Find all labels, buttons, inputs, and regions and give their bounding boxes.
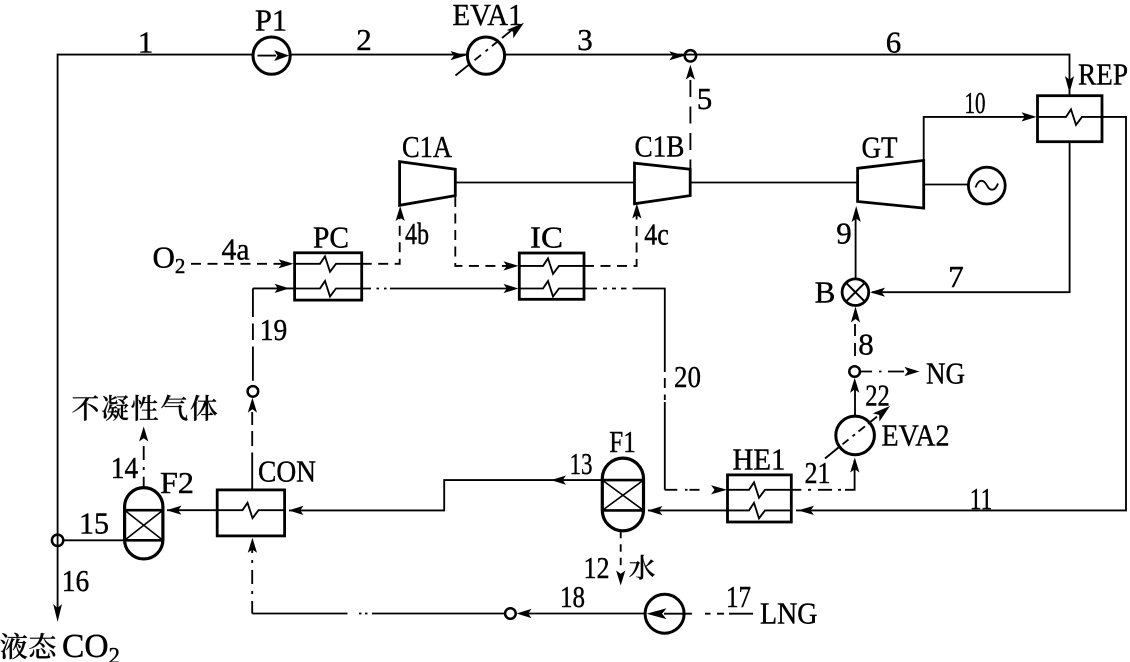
arrow into F1 right bbox=[648, 506, 663, 515]
svg-text:CON: CON bbox=[258, 454, 316, 489]
wire stream 21 corner up bbox=[845, 460, 855, 490]
wire stream 15 (junction to F2) bbox=[63, 539, 125, 541]
arrow into IC bottom bbox=[504, 284, 519, 293]
junction node 18 bbox=[505, 608, 516, 619]
svg-text:IC: IC bbox=[530, 220, 563, 255]
separator F2 vessel bbox=[125, 488, 163, 559]
svg-text:4a: 4a bbox=[222, 232, 250, 267]
wire stream 18 to CON riser (solid with break) bbox=[252, 613, 504, 615]
wire stream 19 (PC coolant line) bbox=[252, 288, 254, 380]
arrow stream 18 bbox=[517, 609, 532, 618]
condenser CON box bbox=[217, 490, 284, 536]
wire stream 10 (GT to REP) bbox=[924, 117, 1032, 160]
arrow stream 13 into CON bbox=[289, 506, 304, 515]
junction node (3+5) bbox=[685, 50, 696, 61]
svg-text:13: 13 bbox=[570, 446, 593, 481]
intercooler IC box bbox=[519, 253, 584, 299]
svg-text:NG: NG bbox=[926, 356, 965, 391]
label 水 (water) bbox=[629, 555, 655, 580]
arrow 4a into PC bbox=[279, 259, 294, 268]
arrow into F2 right bbox=[167, 506, 182, 515]
CON tube bbox=[217, 503, 284, 519]
junction node 15/16 bbox=[52, 535, 63, 546]
svg-text:F2: F2 bbox=[160, 465, 194, 500]
wire stream 20 (IC out, down to HE1) bbox=[584, 289, 665, 490]
generator G bbox=[968, 167, 1005, 204]
svg-text:PC: PC bbox=[313, 220, 349, 255]
arrow 4b into C1A bbox=[396, 206, 405, 221]
arrow stream 16 down (liquid CO2 out) bbox=[53, 604, 62, 622]
wire shaft GT-generator bbox=[924, 184, 969, 186]
svg-text:HE1: HE1 bbox=[733, 442, 786, 477]
arrow stream 14 up bbox=[139, 427, 148, 442]
arrow 8 into B bbox=[851, 307, 860, 323]
arrow 22 into node bbox=[850, 378, 859, 393]
valve B bbox=[842, 279, 869, 306]
arrow stream 7 into B bbox=[870, 288, 885, 297]
pump P1 bbox=[253, 37, 290, 74]
arrow stream 12 down bbox=[616, 571, 625, 586]
separator F1 vessel bbox=[602, 458, 643, 531]
turbine GT bbox=[858, 160, 924, 208]
PC top tube bbox=[295, 256, 362, 272]
svg-text:4c: 4c bbox=[644, 217, 669, 252]
svg-text:4b: 4b bbox=[405, 216, 429, 251]
svg-text:LNG: LNG bbox=[760, 596, 818, 631]
arrow stream 11 into HE1 bbox=[798, 506, 814, 515]
svg-text:19: 19 bbox=[260, 312, 288, 347]
wire stream 20 into HE1 (dash-dot) bbox=[665, 489, 700, 491]
arrow stream 20 into HE1 bbox=[711, 485, 727, 494]
wire stream 13 (F1 to CON) bbox=[289, 480, 602, 510]
wire LNG feed right of pump (dash-dot) bbox=[685, 613, 753, 615]
HE1 bottom tube bbox=[728, 503, 792, 519]
svg-text:P1: P1 bbox=[255, 3, 287, 38]
wire stream 8 (node to B, dashed) bbox=[854, 324, 856, 356]
label 不凝性气体 (non-condensable gas) bbox=[72, 395, 98, 420]
arrow into EVA1 bbox=[451, 51, 466, 60]
F1 internals X bbox=[602, 480, 643, 510]
svg-text:16: 16 bbox=[62, 563, 90, 598]
recuperator REP box bbox=[1038, 96, 1103, 142]
arrow on stream 13 bbox=[551, 476, 566, 485]
svg-text:1: 1 bbox=[138, 25, 154, 60]
svg-text:22: 22 bbox=[865, 378, 890, 413]
precooler PC box bbox=[295, 253, 362, 300]
svg-text:21: 21 bbox=[805, 455, 831, 490]
heat exchanger HE1 box bbox=[728, 475, 792, 522]
wire stream 7 (REP bottom to valve B) bbox=[872, 142, 1070, 293]
svg-text:12: 12 bbox=[584, 550, 610, 585]
svg-text:C1B: C1B bbox=[635, 129, 685, 164]
wire stream 1 (top header, left riser) bbox=[58, 55, 1070, 616]
wire stream 5 (dashed riser from C1B) bbox=[689, 80, 691, 168]
wire stream 4a (O2 feed, dashed) bbox=[191, 263, 290, 265]
wire stream 4c (IC to C1B, dashed) bbox=[584, 208, 637, 266]
svg-text:F1: F1 bbox=[609, 424, 636, 459]
junction node 19 bbox=[248, 386, 259, 397]
dashes stream 20 link bbox=[603, 288, 627, 290]
svg-text:5: 5 bbox=[697, 81, 713, 116]
wire stream 9 (B to GT) bbox=[855, 212, 857, 279]
svg-text:B: B bbox=[815, 275, 836, 310]
svg-text:18: 18 bbox=[560, 579, 585, 614]
label 液态 (liquid) bbox=[0, 633, 27, 659]
svg-text:8: 8 bbox=[858, 327, 874, 362]
wire stream 22 (EVA2 to node) bbox=[854, 382, 856, 416]
svg-text:C1A: C1A bbox=[402, 129, 453, 164]
wire stream 4b2 (C1A to IC, dashed) bbox=[455, 197, 514, 266]
arrow 19 up into node bbox=[248, 398, 257, 413]
wire PC-IC bottom link bbox=[362, 288, 513, 290]
wire stream 11 (REP right, down, to HE1) bbox=[796, 117, 1126, 511]
arrow 4c into C1B bbox=[632, 204, 641, 219]
svg-text:GT: GT bbox=[862, 130, 898, 165]
arrow stream 19 into PC bbox=[275, 284, 290, 293]
IC bottom tube bbox=[519, 281, 584, 297]
arrow stream 6 into REP top bbox=[1065, 76, 1074, 93]
svg-text:11: 11 bbox=[970, 481, 993, 516]
svg-text:REP: REP bbox=[1078, 57, 1128, 92]
svg-text:17: 17 bbox=[726, 579, 751, 614]
svg-text:20: 20 bbox=[674, 359, 701, 394]
wire stream 21 (HE1 to EVA2, dash-dot) bbox=[791, 489, 841, 491]
svg-text:EVA2: EVA2 bbox=[882, 418, 950, 453]
wire shaft C1A-C1B bbox=[455, 182, 634, 184]
wire stream 12 (water out, dashed) bbox=[620, 531, 622, 570]
wire NG branch (dash-dot) bbox=[861, 371, 904, 373]
svg-text:3: 3 bbox=[577, 22, 593, 57]
wire CON to F2 (stream into F2) bbox=[167, 509, 217, 511]
dashes stream 20 vertical bbox=[664, 378, 666, 400]
arrow stream 10 into REP bbox=[1022, 112, 1037, 121]
wire stream 19 corner into PC bbox=[253, 287, 295, 289]
svg-text:EVA1: EVA1 bbox=[453, 0, 523, 32]
dots PC-IC link bbox=[377, 288, 387, 290]
arrow 21 into EVA2 bbox=[850, 458, 859, 473]
svg-text:7: 7 bbox=[948, 259, 964, 294]
junction node NG bbox=[849, 366, 860, 377]
wire stream 14 (F2 vent, dash-dot) bbox=[143, 446, 145, 488]
evaporator EVA1 bbox=[467, 37, 504, 74]
compressor C1A bbox=[400, 162, 456, 206]
F2 internals X bbox=[125, 510, 163, 540]
wire shaft C1B-GT bbox=[690, 182, 857, 184]
HE1 top tube bbox=[728, 482, 792, 498]
REP tube line bbox=[1038, 109, 1103, 125]
IC top tube bbox=[519, 258, 584, 274]
arrow stream 5 up into junction bbox=[686, 65, 695, 80]
wire CON bottom riser (dash-dot) bbox=[251, 542, 253, 614]
svg-text:14: 14 bbox=[111, 450, 139, 485]
arrow into CON bottom bbox=[248, 538, 257, 553]
compressor C1B bbox=[635, 163, 691, 204]
svg-text:9: 9 bbox=[836, 216, 852, 251]
svg-text:2: 2 bbox=[356, 22, 372, 57]
svg-text:15: 15 bbox=[79, 506, 109, 541]
wire HE1 to F1 (bottom line) bbox=[648, 509, 728, 511]
arrow stream 3 into junction bbox=[669, 51, 684, 60]
arrow into IC top bbox=[504, 261, 519, 270]
wire pump to arrow (solid) bbox=[528, 613, 645, 615]
pump LNG bbox=[645, 594, 684, 633]
arrow to NG bbox=[905, 367, 920, 376]
wire 19 below node (dash to CON top) bbox=[251, 412, 253, 490]
evaporator EVA2 bbox=[836, 416, 875, 455]
wire stream 4b (PC to C1A, dashed) bbox=[362, 211, 400, 264]
arrow stream 9 into GT bbox=[852, 206, 861, 222]
svg-text:6: 6 bbox=[886, 25, 902, 60]
svg-text:10: 10 bbox=[965, 85, 986, 120]
PC bottom tube bbox=[295, 281, 362, 297]
